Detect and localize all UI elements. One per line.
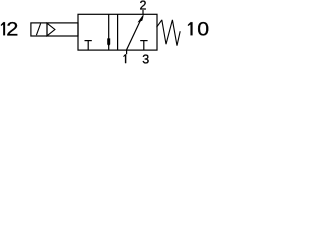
right position: closed port T	[140, 40, 147, 42]
solenoid actuator box Y1	[31, 23, 78, 36]
svg-text:3: 3	[142, 52, 149, 64]
valve body outline	[78, 14, 157, 50]
solenoid slash	[36, 24, 40, 36]
wire: port 2 stub	[142, 10, 144, 14]
svg-text:0: 0	[197, 19, 209, 40]
pilot triangle	[47, 23, 55, 36]
port label 10 (pilot signal)	[188, 22, 192, 35]
right position: arrowhead at port 2	[138, 14, 144, 23]
left position: closed port T	[85, 40, 92, 42]
return spring	[157, 20, 181, 46]
valve centre divider	[117, 14, 119, 50]
port label 1	[124, 54, 127, 63]
wire: port 1 stub	[126, 50, 128, 54]
left position: down arrowhead	[107, 38, 110, 46]
solenoid divider	[46, 23, 48, 36]
port label 12 (pilot signal)	[1, 22, 5, 35]
left position: flow line 2->3	[108, 14, 110, 50]
svg-text:2: 2	[6, 19, 18, 40]
right position: flow path 1->2	[127, 19, 142, 50]
